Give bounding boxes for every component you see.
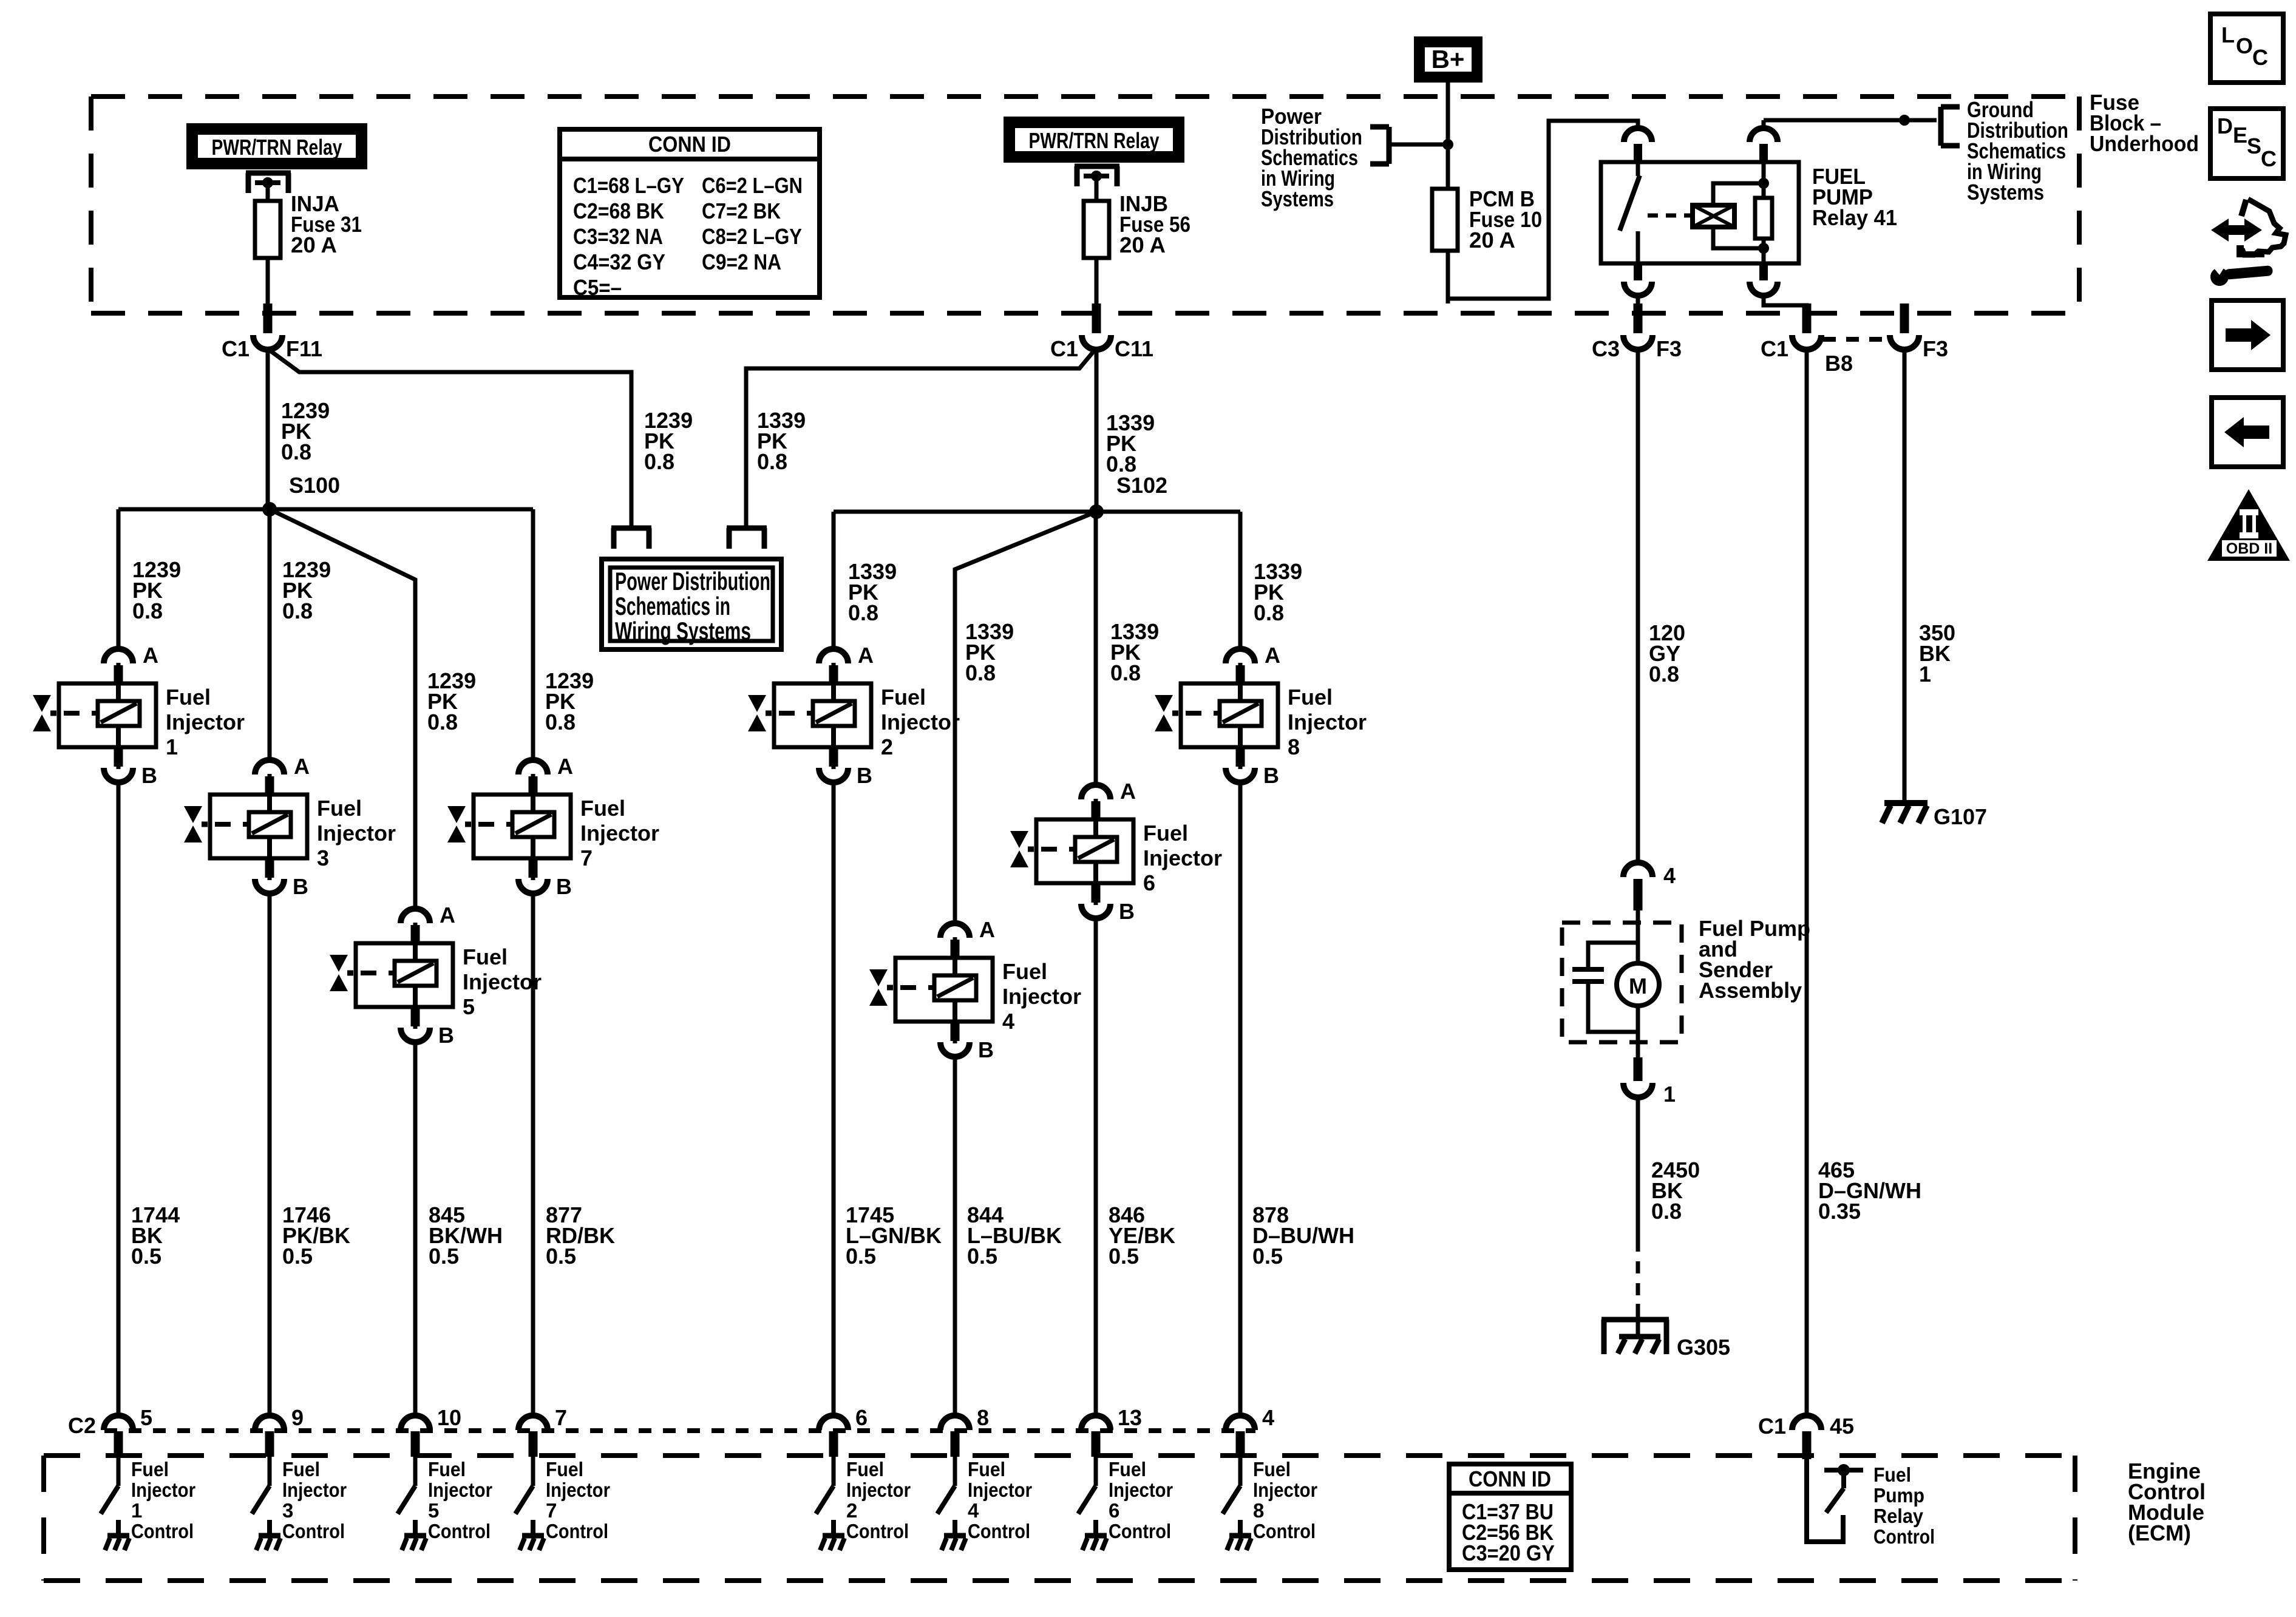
fuel injector 2 [748,643,960,788]
wire injector 1 column [117,509,121,1417]
svg-text:A: A [979,917,995,942]
svg-text:Fuel: Fuel [131,1458,169,1480]
wire injector 8 column [1238,512,1243,1417]
fuse INJB Fuse 56 20 A [1084,191,1190,258]
svg-text:4: 4 [1262,1405,1274,1430]
svg-text:Injector: Injector [428,1479,492,1501]
fuel pump relay control driver [1807,1459,1935,1548]
ground G305 [1601,1320,1730,1360]
relay pin 30 connector (top left) [1624,128,1652,161]
wire label 1239 PK injector 1 [132,557,181,623]
svg-text:Control: Control [1873,1525,1935,1548]
svg-text:Injector: Injector [317,821,396,846]
connector pin 4 fuel pump [1623,863,1676,910]
svg-text:Injector: Injector [131,1479,195,1501]
wire injector 5 column [270,509,415,1417]
power distribution schematics reference (top) [1261,104,1448,211]
wire label 845 BK/WH [429,1202,503,1269]
wire PCM B fuse to relay switch pin [1448,121,1638,299]
icon DESC [2210,109,2283,178]
ECM pin 9 injector 3 driver [252,1405,347,1550]
svg-text:4: 4 [968,1499,979,1522]
svg-text:1: 1 [1663,1082,1676,1107]
wire label 844 L-BU/BK [967,1202,1062,1269]
svg-text:PWR/TRN Relay: PWR/TRN Relay [212,135,342,160]
relay pin 87 connector (bottom left) [1624,263,1652,307]
svg-text:1: 1 [1919,662,1931,686]
svg-text:B: B [556,874,572,899]
svg-text:F11: F11 [286,336,322,361]
wire injector 7 column [531,509,535,1417]
svg-text:B: B [141,763,157,788]
svg-text:20 A: 20 A [291,232,337,257]
svg-text:Control: Control [131,1520,194,1542]
wire 1239 PK main feed [266,348,270,509]
wire motor to pin 1 [1636,1006,1640,1057]
ECM pin 7 injector 7 driver [515,1405,610,1550]
svg-text:Fuel: Fuel [282,1458,320,1480]
connector bracket to power distribution (left) [611,528,651,549]
svg-text:C2: C2 [68,1413,96,1438]
svg-text:C1: C1 [222,336,250,361]
node relay coil junction top [1758,178,1769,189]
svg-text:Systems: Systems [1967,180,2044,205]
svg-text:4: 4 [1002,1009,1014,1034]
CONN ID table (bottom) [1449,1464,1571,1570]
fuel injector 4 [869,917,1081,1062]
svg-text:M: M [1629,974,1647,998]
svg-text:Fuel: Fuel [1288,685,1333,710]
wire injector 4 column [955,512,1096,1417]
wire label 1339 PK injector 2 [848,559,897,625]
ECM pin 45 connector [1758,1414,1854,1459]
svg-text:Schematics in: Schematics in [615,592,730,620]
wire pump pin to motor [1636,910,1640,965]
svg-text:A: A [557,754,573,779]
ECM pin 6 injector 2 driver [816,1405,911,1550]
svg-text:0.5: 0.5 [1252,1244,1283,1269]
connector C3/F3 [1592,303,1682,361]
ECM pin 4 injector 8 driver [1223,1405,1317,1550]
svg-text:6: 6 [855,1405,868,1430]
svg-text:G107: G107 [1934,804,1987,829]
svg-text:Injector: Injector [1253,1479,1317,1501]
fuel injector 5 [330,903,542,1048]
ECM pin 13 injector 6 driver [1078,1405,1173,1550]
wire 2450 BK to G305 [1638,1096,1700,1337]
svg-text:2: 2 [846,1499,857,1522]
wire label 1339 PK injector 8 [1254,559,1302,625]
ECM pin 10 injector 5 driver [398,1405,492,1550]
svg-text:B: B [293,874,308,899]
power distribution schematics box [602,559,781,649]
svg-text:Injector: Injector [282,1479,347,1501]
svg-text:C1: C1 [1758,1414,1786,1439]
svg-text:Fuel: Fuel [317,796,362,821]
ground G107 [1882,803,1987,829]
svg-text:C3=20 GY: C3=20 GY [1462,1541,1555,1565]
svg-text:0.5: 0.5 [846,1244,876,1269]
relay switch contacts [1620,162,1691,263]
svg-text:0.5: 0.5 [546,1244,576,1269]
wire label 1745 L-GN/BK [846,1202,942,1269]
engine control module label [2128,1459,2206,1545]
PWR/TRN relay header (right) [1004,117,1184,163]
wire label 877 RD/BK [546,1202,615,1269]
ground distribution schematics reference [1941,97,2068,205]
svg-text:0.8: 0.8 [848,600,878,625]
svg-text:5: 5 [463,994,475,1019]
relay pin 86 connector (top right) [1750,120,1778,161]
fuel pump and sender assembly dashed box [1562,923,1682,1042]
svg-text:Control: Control [282,1520,345,1542]
svg-text:A: A [1265,643,1280,668]
wire label 1239 PK injector 3 [282,557,331,623]
wire S100 bus [118,507,533,512]
wire 1239 PK to power distribution [270,350,631,526]
svg-text:0.8: 0.8 [427,710,458,734]
svg-text:0.8: 0.8 [1110,660,1141,685]
svg-text:Fuel: Fuel [846,1458,884,1480]
svg-text:Fuel: Fuel [1109,1458,1146,1480]
svg-text:Control: Control [428,1520,491,1542]
relay resistor [1755,162,1772,263]
svg-text:0.5: 0.5 [1109,1244,1139,1269]
svg-text:0.5: 0.5 [967,1244,997,1269]
svg-text:Fuel: Fuel [1253,1458,1291,1480]
svg-text:L: L [2221,22,2235,47]
svg-text:F3: F3 [1656,336,1682,361]
svg-text:(ECM): (ECM) [2128,1520,2191,1545]
svg-text:8: 8 [1288,734,1300,759]
wire 120 GY fuel pump feed [1636,348,1640,863]
svg-text:0.8: 0.8 [282,598,313,623]
fuse block underhood dashed boundary [91,97,2079,313]
svg-text:1: 1 [166,734,178,759]
svg-text:OBD II: OBD II [2226,540,2272,557]
fuel injector 7 [447,754,659,899]
svg-text:0.5: 0.5 [131,1244,161,1269]
svg-text:4: 4 [1663,863,1676,888]
svg-text:Fuel: Fuel [968,1458,1005,1480]
svg-text:B: B [1263,763,1279,788]
svg-text:C1: C1 [1050,336,1078,361]
svg-text:5: 5 [140,1405,152,1430]
svg-text:A: A [1120,779,1136,804]
connector C1/F11 [222,303,322,361]
svg-text:C1: C1 [1761,336,1788,361]
engine control module dashed boundary [44,1456,2075,1581]
ECM pin 8 injector 4 driver [937,1405,1032,1550]
fuel injector 6 [1010,779,1222,924]
wire label 878 D-BU/WH [1252,1202,1354,1269]
svg-text:10: 10 [437,1405,461,1430]
svg-text:Injector: Injector [881,710,960,734]
svg-text:8: 8 [977,1405,989,1430]
wire injector 2 column [832,512,836,1417]
fuel pump relay 41 box [1601,162,1799,263]
svg-text:9: 9 [291,1405,304,1430]
svg-text:0.8: 0.8 [1649,662,1679,686]
svg-text:C5=–: C5=– [573,275,622,300]
wire label 1339 PK injector 6 [1110,619,1159,685]
svg-text:F3: F3 [1923,336,1948,361]
svg-text:C3=32 NA: C3=32 NA [573,224,663,249]
svg-text:0.8: 0.8 [281,439,311,464]
svg-text:0.5: 0.5 [429,1244,459,1269]
svg-text:C6=2 L–GN: C6=2 L–GN [702,173,803,198]
fuse INJA Fuse 31 20 A [255,191,362,258]
wire injector 3 column [268,509,272,1417]
svg-text:Power Distribution: Power Distribution [615,567,770,595]
svg-text:O: O [2236,33,2253,58]
fuel injector 1 [33,643,245,788]
svg-text:S102: S102 [1116,473,1167,498]
svg-text:Fuel: Fuel [580,796,625,821]
svg-text:Injector: Injector [1143,846,1222,870]
svg-text:Fuel: Fuel [546,1458,583,1480]
svg-text:Pump: Pump [1873,1484,1924,1507]
svg-text:Fuel: Fuel [1143,821,1188,846]
svg-text:Control: Control [1109,1520,1171,1542]
svg-text:C9=2 NA: C9=2 NA [702,249,781,274]
svg-text:20 A: 20 A [1469,228,1515,253]
svg-text:B+: B+ [1432,45,1465,73]
wire 465 D-GN/WH relay control [1805,348,1809,1417]
wire label 1239 PK injector 7 [545,668,594,734]
wire B+ to PCM B fuse [1446,83,1450,303]
node S100 splice [262,473,340,517]
wire relay to ground distribution [1764,118,1937,123]
svg-text:Injector: Injector [463,969,542,994]
svg-text:Fuel: Fuel [428,1458,466,1480]
node S102 splice [1089,473,1167,519]
svg-text:Underhood: Underhood [2090,131,2199,156]
svg-text:C: C [2252,45,2268,70]
svg-text:C7=2 BK: C7=2 BK [702,198,781,223]
svg-text:Control: Control [846,1520,909,1542]
svg-text:Fuel: Fuel [881,685,926,710]
connector bracket below PWR/TRN relay (right) [1075,166,1119,186]
relay coil [1693,183,1764,248]
svg-text:C2=68 BK: C2=68 BK [573,198,664,223]
svg-text:C4=32 GY: C4=32 GY [573,249,665,274]
wire label 1339 PK injector 4 [965,619,1014,685]
svg-text:CONN ID: CONN ID [648,132,731,157]
svg-text:0.8: 0.8 [545,710,576,734]
svg-text:0.8: 0.8 [132,598,163,623]
svg-text:Fuel: Fuel [463,944,508,969]
svg-text:3: 3 [317,846,329,870]
svg-text:13: 13 [1118,1405,1142,1430]
fuel pump motor M [1617,963,1659,1006]
svg-text:2: 2 [881,734,893,759]
svg-text:Injector: Injector [546,1479,610,1501]
svg-text:0.8: 0.8 [1254,600,1284,625]
connector bracket below PWR/TRN relay (left) [246,173,291,193]
wire ECM connector dotted row [104,1428,1255,1433]
connector bracket to power distribution (right) [727,528,767,549]
icon LOC [2210,14,2283,83]
svg-text:C: C [2261,146,2277,171]
svg-text:Fuel: Fuel [166,685,211,710]
svg-text:C8=2 L–GY: C8=2 L–GY [702,224,802,249]
node ground feed junction [1899,115,1910,126]
svg-text:7: 7 [555,1405,567,1430]
CONN ID table (top) [560,129,820,300]
icon forward arrow [2212,300,2283,370]
svg-text:0.8: 0.8 [1651,1199,1682,1224]
B+ battery feed [1414,36,1483,83]
svg-text:20 A: 20 A [1119,232,1166,257]
connector F3 (B8) [1890,303,1948,361]
wire label 846 YE/BK [1109,1202,1175,1269]
fuel injector 3 [184,754,396,899]
svg-text:0.8: 0.8 [644,449,674,474]
svg-text:Assembly: Assembly [1699,978,1802,1003]
svg-text:Control: Control [546,1520,608,1542]
svg-text:Control: Control [1253,1520,1316,1542]
svg-text:0.35: 0.35 [1818,1199,1861,1224]
svg-text:Systems: Systems [1261,186,1334,211]
PWR/TRN relay header (left) [186,123,367,169]
svg-text:CONN ID: CONN ID [1469,1466,1551,1491]
node relay coil junction bottom [1758,243,1769,254]
wire label 1744 BK [131,1202,180,1269]
fuse PCM B Fuse 10 20 A [1432,186,1542,253]
node B+ junction [1442,139,1453,150]
wire B8 dotted link [1823,337,1888,342]
svg-text:E: E [2233,123,2247,147]
svg-text:7: 7 [580,846,593,870]
svg-text:PWR/TRN Relay: PWR/TRN Relay [1029,128,1160,153]
wire 1339 PK to power distribution [746,350,1095,526]
wire label 1746 PK/BK [282,1202,350,1269]
svg-text:B: B [857,763,872,788]
svg-text:B: B [978,1037,994,1062]
wire 350 BK to G107 [1904,348,1955,802]
relay pin 85 connector (bottom right) [1750,263,1807,307]
svg-text:G305: G305 [1677,1335,1730,1360]
svg-text:Relay: Relay [1873,1505,1924,1527]
svg-text:Control: Control [968,1520,1030,1542]
icon service info (arrow + wrench) [2210,199,2286,286]
svg-text:0.5: 0.5 [282,1244,313,1269]
svg-text:Injector: Injector [580,821,659,846]
svg-text:C3: C3 [1592,336,1620,361]
svg-text:Fuel: Fuel [1002,959,1047,984]
svg-text:Injector: Injector [968,1479,1032,1501]
svg-text:B: B [1119,899,1135,924]
icon OBD II [2207,489,2290,561]
wire INJB feed [1095,176,1099,303]
wire INJA feed [266,183,270,303]
connector C1/C11 [1050,303,1153,361]
svg-text:S: S [2247,134,2261,158]
svg-text:Injector: Injector [846,1479,911,1501]
svg-text:C1=68 L–GY: C1=68 L–GY [573,173,684,198]
svg-text:Injector: Injector [1002,984,1081,1009]
wire injector 6 column [1094,512,1098,1417]
svg-text:Wiring Systems: Wiring Systems [615,617,751,645]
svg-text:A: A [143,643,158,668]
svg-text:S100: S100 [289,473,340,498]
fuse block label [2090,90,2199,156]
connector C1 (B8) [1761,303,1821,361]
svg-text:0.8: 0.8 [965,660,996,685]
svg-text:A: A [440,903,455,927]
wire S102 bus [834,510,1240,514]
svg-text:6: 6 [1143,870,1155,895]
capacitor branch in pump assembly [1572,943,1638,1032]
svg-text:Relay 41: Relay 41 [1812,205,1897,230]
svg-text:8: 8 [1253,1499,1264,1522]
svg-text:7: 7 [546,1499,557,1522]
svg-text:5: 5 [428,1499,439,1522]
svg-text:Injector: Injector [1288,710,1367,734]
svg-text:A: A [858,643,874,668]
svg-text:Injector: Injector [1109,1479,1173,1501]
fuel injector 8 [1155,643,1367,788]
svg-text:A: A [294,754,310,779]
svg-text:Fuel: Fuel [1873,1463,1911,1486]
svg-text:B8: B8 [1825,351,1853,376]
wire label 1239 PK injector 5 [427,668,476,734]
svg-text:1: 1 [131,1499,142,1522]
icon back arrow [2212,398,2283,467]
svg-text:C11: C11 [1115,336,1153,361]
svg-text:3: 3 [282,1499,293,1522]
ECM pin 5 injector 1 driver [101,1405,195,1550]
wire 1339 PK main feed [1095,348,1099,512]
svg-text:D: D [2217,114,2233,138]
svg-text:45: 45 [1830,1414,1854,1439]
svg-text:B: B [438,1023,454,1048]
svg-text:Injector: Injector [166,710,245,734]
svg-text:0.8: 0.8 [757,449,787,474]
connector pin 1 fuel pump [1623,1057,1676,1107]
svg-text:6: 6 [1109,1499,1119,1522]
